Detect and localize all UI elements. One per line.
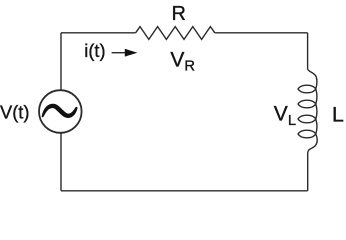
inductor L1 loop 3 [298, 115, 316, 123]
inductor L1 loop 1 [298, 85, 316, 93]
wire top-left segment [61, 32, 136, 34]
inductor L1 connector 3-4 [316, 119, 317, 134]
wire right lower segment [307, 153, 309, 191]
svg-text:V(t): V(t) [0, 101, 29, 122]
svg-text:VR: VR [170, 49, 195, 75]
source V1 sine symbol [42, 104, 78, 118]
wire left lower segment [60, 133, 62, 191]
current arrow head [125, 49, 138, 57]
inductor L1 loop 4 [298, 130, 316, 138]
svg-text:L: L [332, 102, 344, 126]
inductor L1 connector 1-2 [316, 89, 317, 104]
wire left upper segment [60, 33, 62, 90]
current arrow line [112, 52, 127, 54]
svg-text:VL: VL [274, 102, 296, 129]
wire bottom segment [61, 190, 308, 192]
svg-text:R: R [172, 3, 186, 25]
wire right upper segment [307, 33, 309, 69]
inductor L1 exit curve [308, 134, 317, 153]
inductor L1 entry curve [308, 69, 317, 89]
wire top-right segment [215, 32, 308, 34]
source V1 circle [39, 90, 82, 133]
inductor L1 loop 2 [298, 100, 316, 108]
svg-text:i(t): i(t) [84, 41, 105, 61]
resistor R1 zigzag [136, 27, 215, 40]
inductor L1 connector 2-3 [316, 104, 317, 119]
